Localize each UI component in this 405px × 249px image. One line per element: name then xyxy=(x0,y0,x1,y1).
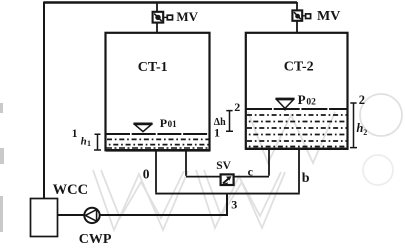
svg-text:01: 01 xyxy=(168,119,178,129)
svg-text:MV: MV xyxy=(176,9,198,24)
svg-text:Δh: Δh xyxy=(214,117,226,128)
svg-text:h: h xyxy=(81,136,87,148)
svg-text:1: 1 xyxy=(72,128,78,140)
svg-text:2: 2 xyxy=(359,93,365,107)
svg-text:WCC: WCC xyxy=(53,182,88,198)
svg-text:P: P xyxy=(160,116,167,130)
svg-text:MV: MV xyxy=(317,9,340,24)
svg-text:02: 02 xyxy=(306,98,316,108)
svg-text:0: 0 xyxy=(143,167,150,182)
svg-text:CT-2: CT-2 xyxy=(284,60,314,75)
svg-text:b: b xyxy=(302,171,310,186)
svg-text:2: 2 xyxy=(363,128,367,137)
svg-text:CT-1: CT-1 xyxy=(138,60,168,75)
svg-text:3: 3 xyxy=(231,198,237,212)
svg-text:CWP: CWP xyxy=(79,232,112,247)
svg-text:P: P xyxy=(298,92,306,107)
svg-text:2: 2 xyxy=(234,100,240,114)
svg-text:SV: SV xyxy=(216,160,231,172)
svg-text:c: c xyxy=(248,165,254,179)
svg-text:1: 1 xyxy=(87,139,91,148)
